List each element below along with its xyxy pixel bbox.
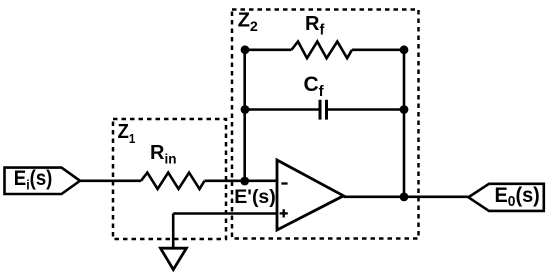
svg-text:E0(s): E0(s) — [495, 183, 540, 209]
svg-text:E'(s): E'(s) — [234, 186, 275, 208]
svg-text:Ei(s): Ei(s) — [14, 167, 53, 193]
